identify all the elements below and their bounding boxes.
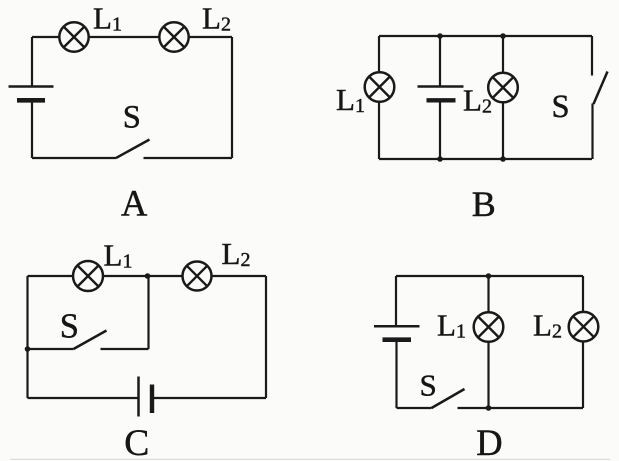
svg-text:B: B: [472, 184, 496, 224]
svg-text:S: S: [123, 100, 141, 136]
svg-text:C: C: [124, 423, 149, 461]
svg-text:D: D: [476, 422, 502, 461]
svg-text:S: S: [60, 307, 79, 345]
svg-text:A: A: [121, 182, 148, 223]
svg-text:S: S: [420, 367, 437, 402]
svg-text:S: S: [552, 89, 570, 125]
